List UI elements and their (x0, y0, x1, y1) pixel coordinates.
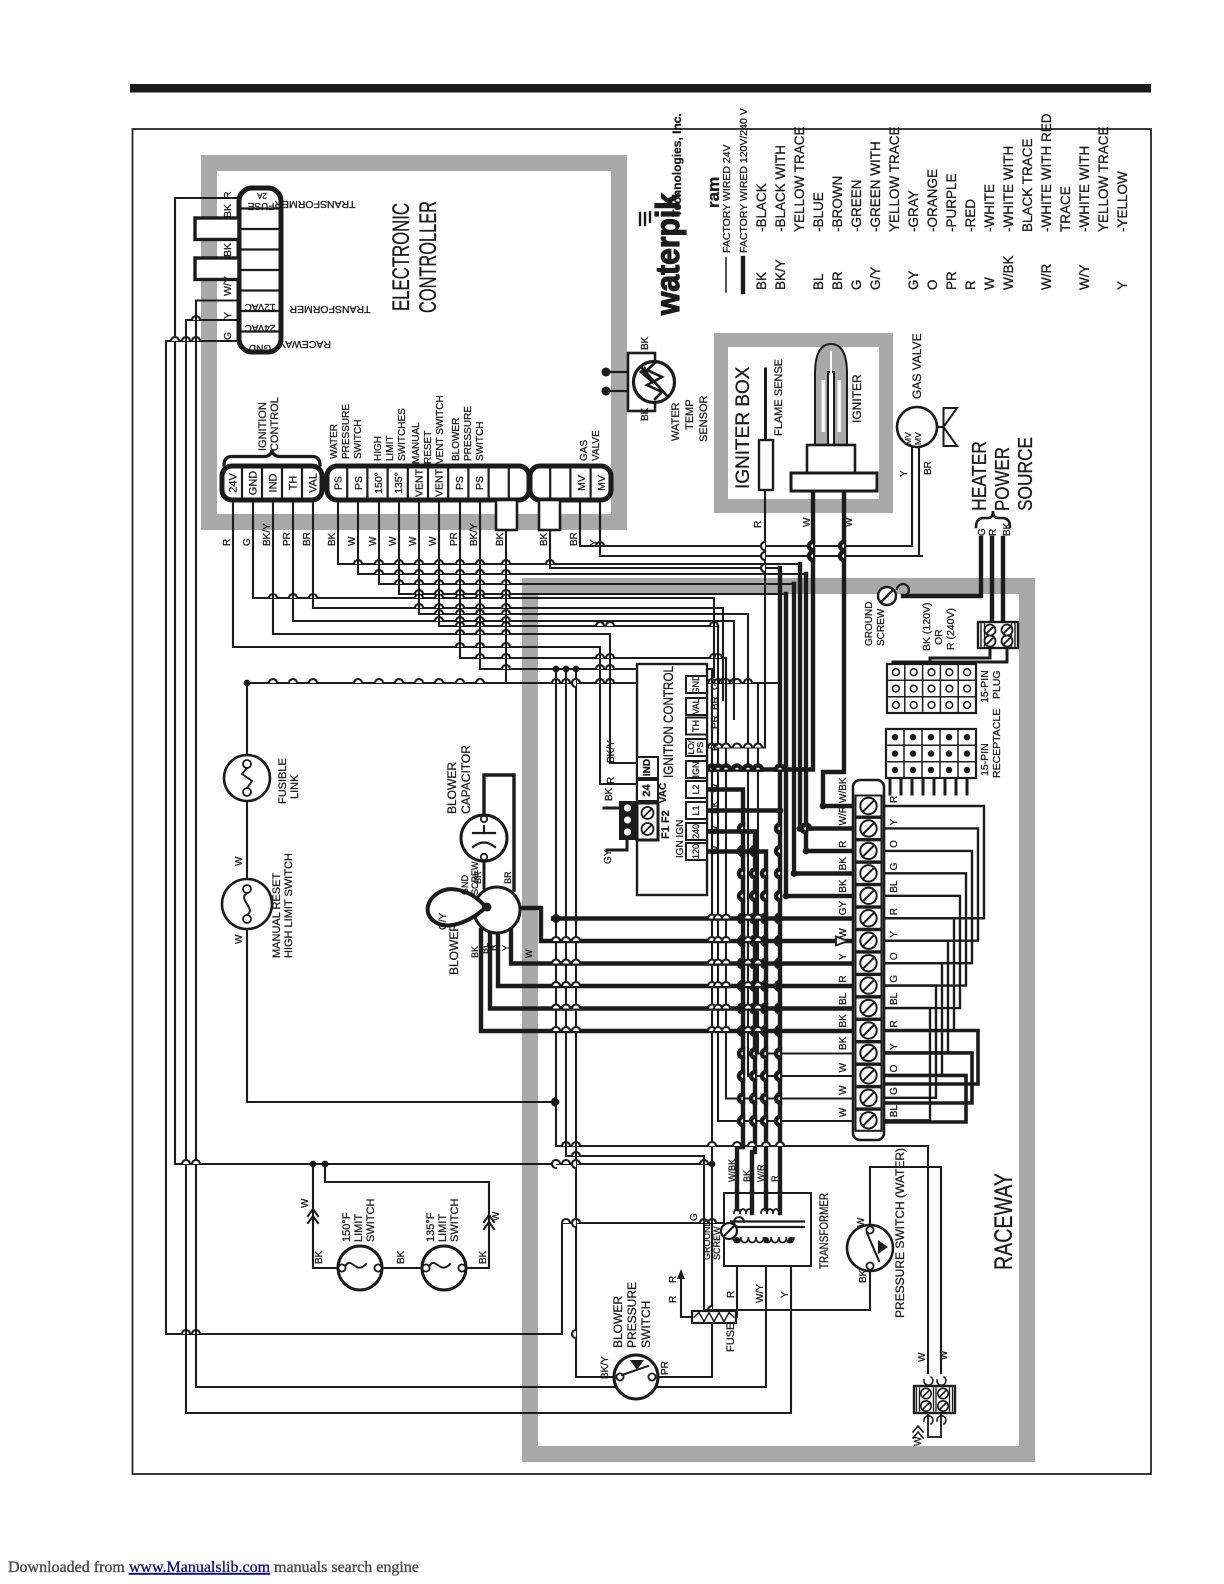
ignition control terminal L1 (686, 802, 707, 819)
svg-text:G: G (889, 975, 900, 983)
wire BK pressure switch to mesh (563, 666, 866, 1310)
svg-text:R: R (963, 280, 978, 290)
svg-text:BK: BK (710, 800, 721, 814)
svg-text:SWITCHES: SWITCHES (397, 408, 408, 461)
svg-text:R: R (606, 777, 617, 784)
wire R to ignition control 24 terminal (600, 647, 637, 784)
label 150F LIMIT SWITCH (341, 1199, 377, 1242)
wire bus bracket terminal 1 to terminal 6 (884, 806, 984, 918)
wire to terminal 14 W (726, 658, 853, 1099)
terminal screw 9 (856, 975, 882, 996)
wire Y from controller MV to gas valve (580, 447, 912, 546)
svg-text:BK (120V): BK (120V) (921, 603, 933, 651)
terminal MV (576, 475, 588, 491)
svg-text:BK: BK (604, 787, 615, 801)
terminal MV (596, 475, 608, 491)
svg-text:G: G (710, 682, 721, 690)
label WATER PRESSURE SWITCH (329, 404, 364, 459)
svg-text:-WHITE WITH RED: -WHITE WITH RED (1039, 113, 1054, 232)
svg-text:-GREEN: -GREEN (849, 179, 864, 232)
15-pin receptacle (886, 729, 976, 778)
raceway enclosure gray frame (530, 586, 1027, 1454)
wire 135F right terminal (465, 1267, 489, 1269)
svg-text:O: O (889, 840, 900, 848)
svg-text:R: R (770, 1175, 780, 1182)
wire bus bracket terminal 7 to terminal 12 (884, 941, 948, 1053)
svg-text:PR: PR (660, 1361, 671, 1375)
connector cell 12VAC (245, 301, 276, 312)
terminal strip 24V GND IND TH VAL (222, 466, 322, 500)
wire to terminal 4 BK (794, 584, 853, 874)
svg-text:W: W (710, 825, 721, 835)
ignition control cell IND (637, 757, 658, 778)
svg-text:BK: BK (640, 336, 651, 350)
svg-text:W: W (917, 1352, 928, 1362)
svg-text:MV: MV (576, 475, 588, 491)
svg-text:BK: BK (838, 1014, 849, 1028)
wire W igniter to terminal 1 W/BK (823, 491, 853, 806)
svg-text:W: W (710, 783, 721, 793)
svg-text:PR: PR (710, 715, 721, 729)
svg-text:O: O (889, 1064, 900, 1072)
svg-text:150°F: 150°F (341, 1212, 353, 1242)
ignition control terminal GND (686, 674, 707, 695)
svg-text:BK: BK (327, 532, 338, 546)
svg-text:FLAME SENSE: FLAME SENSE (773, 359, 785, 436)
terminal strip PS PS 150 135 VENT VENT PS PS (327, 466, 529, 500)
svg-text:L1: L1 (691, 805, 701, 815)
svg-text:BR: BR (923, 461, 934, 475)
label RACEWAY (279, 338, 331, 350)
svg-text:-WHITE: -WHITE (982, 184, 997, 232)
svg-text:PS: PS (333, 476, 345, 490)
wire bus bracket terminal 8 to terminal 13 (884, 963, 942, 1075)
page header bar (130, 84, 1151, 93)
label BLOWER CAPACITOR (445, 745, 473, 814)
terminal screw 15 (856, 1110, 882, 1131)
svg-text:W: W (844, 517, 855, 527)
labels connector wires (222, 191, 234, 340)
wire BR from controller terminal x=580 (580, 500, 912, 546)
wire Y loop from 24VAC terminal to transformer secondary (186, 316, 791, 1413)
electronic controller enclosure gray frame (209, 163, 619, 522)
svg-text:BK: BK (640, 407, 651, 421)
terminal screw 10 (856, 998, 882, 1019)
terminal VAL (308, 473, 320, 493)
svg-text:WATER: WATER (329, 424, 340, 459)
svg-text:135°F: 135°F (425, 1212, 437, 1242)
svg-text:BR: BR (569, 532, 580, 546)
labels terminal strip right (889, 796, 900, 1118)
labels controller drop wires (222, 523, 600, 546)
svg-text:R: R (668, 1296, 679, 1303)
svg-text:PLUG: PLUG (991, 670, 1003, 699)
terminal screw 12 (856, 1042, 882, 1063)
labels G R BK power wires (977, 522, 1013, 536)
label G at ground wire (689, 1213, 700, 1221)
connector cell GND (249, 342, 271, 353)
svg-text:R: R (222, 539, 233, 546)
wire BK/Y to ignition control IND terminal (610, 634, 637, 763)
svg-text:Y: Y (838, 953, 849, 960)
svg-text:O: O (925, 279, 940, 290)
svg-text:12VAC: 12VAC (245, 301, 276, 312)
wire fusible link to manual reset switch (246, 801, 248, 879)
svg-text:LIMIT: LIMIT (353, 1214, 365, 1242)
legend factory wired 24V (721, 144, 733, 292)
svg-text:R: R (889, 908, 900, 915)
svg-text:BK/Y: BK/Y (600, 1356, 611, 1379)
ignition control terminal IGN (686, 761, 707, 778)
svg-text:PRESSURE SWITCH (WATER): PRESSURE SWITCH (WATER) (893, 1148, 907, 1318)
svg-text:LIMIT: LIMIT (437, 1214, 449, 1242)
wire BK from controller terminal x=506 (506, 530, 778, 683)
labels ignition control terminal wires (710, 682, 721, 855)
label TRANSFORMER (817, 1193, 831, 1269)
terminal screw 13 (856, 1065, 882, 1086)
label IGNITER (850, 374, 864, 423)
wire manual reset switch bottom run (247, 929, 559, 1105)
svg-text:RACEWAY: RACEWAY (279, 338, 331, 350)
terminal strip MV MV (530, 466, 611, 500)
svg-text:BK/Y: BK/Y (469, 523, 480, 546)
connector tab BK upper (195, 218, 239, 240)
wire bus return loop B (884, 1053, 972, 1103)
wire R blower to terminal 9 (498, 932, 853, 986)
wire W from controller terminal x=358 (358, 500, 806, 574)
svg-text:GND: GND (249, 342, 271, 353)
fuse (692, 1311, 736, 1323)
svg-text:VENT: VENT (434, 468, 446, 497)
blower ground loop G/Y (428, 889, 492, 925)
wire R(240V) block to 15-pin plug (893, 648, 1007, 664)
wire W from controller terminal x=439 (439, 500, 718, 626)
wire to terminal 12 BK (758, 683, 853, 1054)
svg-text:G: G (222, 332, 234, 340)
svg-text:W: W (491, 1211, 502, 1221)
terminal screw 11 (856, 1020, 882, 1041)
svg-text:HIGH LIMIT SWITCH: HIGH LIMIT SWITCH (283, 853, 295, 958)
wire bus return loop C (884, 1075, 966, 1122)
wire bus bracket terminal 10 to terminal 15 (884, 1008, 930, 1120)
svg-text:BL: BL (838, 992, 849, 1005)
svg-text:OR: OR (933, 629, 945, 645)
svg-text:RACEWAY: RACEWAY (990, 1173, 1018, 1270)
svg-text:W: W (234, 934, 245, 944)
wire PR from controller terminal x=460 (460, 500, 726, 658)
svg-text:W: W (300, 1198, 311, 1208)
svg-text:W/R: W/R (838, 806, 849, 825)
svg-text:CAPACITOR: CAPACITOR (459, 745, 473, 814)
svg-text:R: R (488, 944, 498, 951)
15-pin plug (887, 664, 976, 713)
label GROUND SCREW transformer (702, 1220, 722, 1260)
wire Y from controller terminal x=600 (600, 500, 922, 556)
wire W pressure switch loop to terminal block (870, 1167, 941, 1373)
arrow W on terminal 7 feeder (836, 937, 848, 946)
svg-text:WATER: WATER (670, 402, 682, 441)
ground screw raceway (878, 587, 896, 605)
wire Y blower to terminal 8 (511, 930, 853, 964)
transformer (724, 1193, 811, 1266)
svg-text:SWITCH: SWITCH (353, 420, 364, 459)
svg-text:BK: BK (754, 272, 769, 290)
terminal VENT (434, 468, 446, 497)
blower pressure switch (614, 1355, 658, 1399)
label F1 F2 (660, 810, 672, 839)
manual reset high limit switch (222, 879, 272, 929)
svg-text:Y: Y (780, 1291, 791, 1298)
labels W W above block (917, 1350, 950, 1362)
label 15-PIN RECEPTACLE (979, 709, 1003, 778)
svg-text:IGNITION: IGNITION (257, 402, 269, 451)
raceway terminal strip (853, 780, 884, 1140)
svg-text:BLOWER: BLOWER (611, 1296, 625, 1348)
label IGNITION CONTROL (661, 666, 676, 778)
wire PR from controller terminal x=293 (293, 500, 734, 621)
terminal screw 14 (856, 1087, 882, 1108)
svg-text:BLOWER: BLOWER (445, 762, 459, 814)
labels W manual reset (234, 856, 245, 944)
labels transformer primary wires (727, 1159, 780, 1182)
svg-text:135°: 135° (393, 472, 405, 494)
svg-text:240: 240 (691, 824, 701, 839)
wire BR down to ignition control VAL terminal (722, 608, 724, 700)
svg-text:F1 F2: F1 F2 (660, 810, 672, 839)
svg-text:BK/Y: BK/Y (262, 523, 273, 546)
svg-text:W: W (347, 536, 358, 546)
svg-text:IGNITER BOX: IGNITER BOX (733, 366, 754, 489)
label HEATER POWER SOURCE (969, 437, 1037, 511)
svg-text:R: R (710, 744, 721, 751)
terminal screw 4 (856, 863, 882, 884)
svg-text:24: 24 (641, 784, 653, 797)
label BK(120V) OR R(240V) (921, 603, 957, 651)
igniter box enclosure gray frame (721, 340, 886, 506)
watermark downloaded from manualslib (8, 1559, 419, 1576)
terminal screw 1 (856, 796, 882, 817)
ground screw transformer (721, 1217, 744, 1239)
svg-text:W/Y: W/Y (1077, 265, 1092, 291)
labels BR BR capacitor wires (473, 871, 513, 884)
svg-text:GY: GY (838, 900, 849, 915)
wire bus bracket terminal 3 to terminal 8 (884, 851, 972, 963)
svg-text:R: R (726, 1291, 737, 1298)
svg-text:RECEPTACLE: RECEPTACLE (991, 709, 1003, 778)
svg-text:FACTORY WIRED 24V: FACTORY WIRED 24V (721, 144, 733, 253)
svg-text:GAS VALVE: GAS VALVE (910, 333, 924, 399)
svg-text:FUSIBLE: FUSIBLE (277, 758, 289, 804)
150F limit switch (338, 1246, 382, 1290)
svg-text:G: G (849, 279, 864, 290)
svg-text:W: W (234, 856, 245, 866)
svg-text:IGNITER: IGNITER (850, 374, 864, 423)
wire G power to ground screw (903, 538, 981, 596)
svg-text:SWITCH: SWITCH (365, 1199, 377, 1242)
svg-text:-GREEN WITH: -GREEN WITH (868, 141, 883, 232)
svg-text:PRESSURE: PRESSURE (625, 1282, 639, 1348)
label W below block (913, 1426, 924, 1446)
legend wire color code (754, 113, 1130, 290)
svg-text:BL: BL (889, 1105, 900, 1118)
wire to terminal 2 W/R (800, 564, 853, 829)
wire bus bracket terminal 5 to terminal 10 (884, 896, 960, 1008)
svg-text:W: W (856, 1217, 867, 1227)
svg-text:VAC: VAC (658, 783, 669, 803)
svg-text:2A: 2A (256, 191, 266, 200)
svg-text:W: W (710, 845, 721, 855)
svg-text:BL: BL (811, 273, 826, 290)
wire BK/Y from controller terminal x=480 (480, 500, 712, 669)
svg-text:SOURCE: SOURCE (1015, 437, 1037, 511)
wire BK(120V) block to 15-pin plug (930, 648, 990, 664)
terminal GND (248, 471, 260, 496)
svg-text:G/Y: G/Y (868, 267, 883, 290)
svg-text:BR: BR (302, 532, 313, 546)
svg-text:BK: BK (742, 1170, 752, 1182)
wire BL blower to terminal 10 (490, 931, 853, 1009)
wire R flame sense to ignition control LO/PS (707, 491, 765, 748)
wire BK power to terminal block (1001, 538, 1005, 622)
svg-text:GROUND: GROUND (864, 602, 875, 646)
connector cell FUSE 2A (247, 191, 274, 211)
labels BK GY R BK/Y at ignition control (603, 740, 617, 864)
gas valve (897, 407, 957, 447)
svg-text:YELLOW TRACE: YELLOW TRACE (887, 126, 902, 232)
wire bus bracket terminal 6 to terminal 11 (884, 918, 954, 1030)
wire fusible link top (246, 683, 248, 755)
wire BR capacitor to blower (483, 861, 486, 888)
wire G down to ignition control GND terminal (713, 598, 715, 677)
wire BK/Y from controller terminal x=273 (273, 500, 610, 634)
svg-text:YELLOW TRACE: YELLOW TRACE (792, 126, 807, 232)
svg-text:SWITCH: SWITCH (639, 1301, 653, 1348)
label GAS VALVE (579, 430, 602, 461)
wire BK from controller terminal x=338 (338, 500, 800, 564)
water temp sensor (602, 353, 675, 411)
svg-text:W/BK: W/BK (1001, 255, 1016, 290)
label IGN IGN (675, 820, 686, 858)
flame sense rod (759, 369, 773, 490)
svg-text:BK/Y: BK/Y (606, 740, 617, 763)
connector tab below strip2 (496, 500, 517, 530)
svg-text:-WHITE WITH: -WHITE WITH (1077, 146, 1092, 232)
ignition control F1 F2 connector (637, 803, 658, 840)
svg-text:R (240V): R (240V) (945, 608, 957, 650)
ignition control terminal 120 (686, 843, 707, 860)
svg-text:IGNITION CONTROL: IGNITION CONTROL (661, 666, 676, 778)
svg-text:SENSOR: SENSOR (698, 395, 710, 442)
ignition control cell 24 (637, 780, 658, 801)
svg-text:SCREW: SCREW (712, 1226, 722, 1260)
svg-text:YELLOW TRACE: YELLOW TRACE (1096, 126, 1111, 232)
svg-text:PS: PS (353, 476, 365, 490)
svg-text:RESET: RESET (423, 431, 434, 464)
connector cell 24VAC (245, 322, 276, 333)
label RACEWAY (990, 1173, 1018, 1270)
ignition control terminal L2 (686, 781, 707, 798)
svg-text:BK: BK (838, 1036, 849, 1050)
wire receptacle leads (890, 778, 967, 794)
svg-text:BL: BL (889, 880, 900, 893)
wire W from ignition control 120 to transformer W/R (707, 852, 766, 1194)
svg-text:W: W (982, 277, 997, 290)
svg-text:PRESSURE: PRESSURE (341, 404, 352, 459)
wire GY to terminal 6 (552, 914, 853, 923)
svg-text:SWITCH: SWITCH (475, 422, 486, 461)
wire BR from controller terminal x=313 (313, 500, 723, 608)
svg-text:W/BK: W/BK (727, 1159, 737, 1182)
svg-text:BK: BK (838, 879, 849, 893)
svg-text:Downloaded from www.Manualslib: Downloaded from www.Manualslib.com manua… (8, 1559, 419, 1576)
terminal screw 6 (856, 908, 882, 929)
svg-text:GY: GY (906, 270, 921, 290)
svg-text:W/BK: W/BK (838, 777, 849, 803)
svg-text:G: G (689, 1213, 700, 1221)
wire W from controller terminal x=399 (399, 500, 786, 594)
wire fuse to R arrow (677, 1269, 692, 1317)
svg-text:W/Y: W/Y (222, 276, 234, 296)
svg-text:BK: BK (1002, 522, 1013, 536)
terminal screw 3 (856, 840, 882, 861)
svg-text:W: W (838, 1062, 849, 1072)
ignition control terminal TH (686, 718, 707, 735)
svg-text:FACTORY WIRED 120V/240 V: FACTORY WIRED 120V/240 V (738, 108, 750, 253)
svg-text:R: R (753, 521, 764, 528)
svg-text:PR: PR (282, 532, 293, 546)
svg-text:PR: PR (944, 271, 959, 290)
svg-text:BR: BR (710, 696, 721, 710)
svg-text:SWITCH: SWITCH (449, 1199, 461, 1242)
terminal 150° (373, 472, 385, 494)
wires 3-pin connector (604, 808, 627, 850)
terminal PS (474, 476, 486, 490)
svg-text:BR: BR (503, 871, 513, 884)
wire BK blower to terminal 11 (481, 930, 853, 1031)
svg-text:L2: L2 (691, 784, 701, 794)
svg-text:PRESSURE: PRESSURE (463, 406, 474, 461)
svg-text:ELECTRONIC: ELECTRONIC (388, 203, 415, 311)
svg-text:FUSE: FUSE (247, 200, 274, 211)
svg-text:R: R (838, 841, 849, 848)
svg-text:-GRAY: -GRAY (906, 190, 921, 232)
labels W BK pressure switch (856, 1217, 869, 1283)
svg-text:VAL: VAL (691, 698, 701, 714)
labels Y BR gas valve wires (899, 461, 934, 477)
svg-text:W/Y: W/Y (755, 1284, 766, 1303)
svg-text:W: W (838, 1107, 849, 1117)
svg-text:W: W (710, 763, 721, 773)
svg-text:GAS: GAS (579, 440, 590, 461)
terminal screw 5 (856, 885, 882, 906)
wire bus return loop A (884, 1031, 978, 1085)
svg-text:15-PIN: 15-PIN (979, 670, 991, 703)
svg-text:GND: GND (248, 471, 260, 496)
label VAC (658, 783, 669, 803)
svg-text:GROUND: GROUND (702, 1220, 712, 1260)
blower (474, 887, 520, 933)
svg-text:MANUAL: MANUAL (411, 422, 422, 464)
svg-text:BR: BR (830, 271, 845, 290)
svg-text:HEATER: HEATER (969, 441, 991, 511)
svg-text:W: W (388, 536, 399, 546)
wire R from controller terminal x=233 (233, 500, 600, 647)
svg-text:-YELLOW: -YELLOW (1115, 171, 1130, 232)
label GROUND SCREW raceway (864, 602, 887, 646)
svg-text:IND: IND (642, 759, 653, 776)
svg-text:-BLACK WITH: -BLACK WITH (773, 145, 788, 232)
svg-text:-ORANGE: -ORANGE (925, 169, 940, 232)
